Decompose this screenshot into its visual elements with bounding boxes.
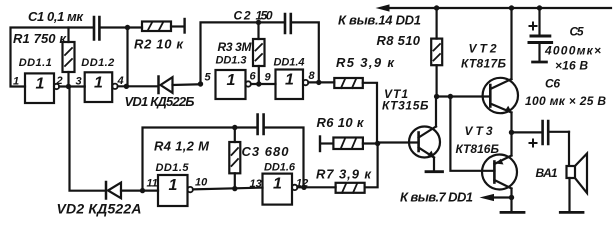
- diode VD2: [106, 182, 121, 199]
- transistor VT1: [409, 97, 440, 171]
- svg-text:DD1.3: DD1.3: [216, 55, 247, 67]
- transistor VT3: [482, 132, 517, 211]
- svg-text:BA1: BA1: [536, 166, 558, 180]
- wire К выв.7 DD1: [480, 194, 512, 201]
- junction R4 top: [232, 125, 237, 130]
- svg-text:DD1.6: DD1.6: [264, 162, 296, 174]
- junction C5 top: [537, 5, 542, 10]
- wire VD2 to pin11 node: [121, 190, 158, 192]
- svg-text:13: 13: [250, 178, 262, 190]
- wire VT1 collector to VT2 base: [437, 95, 490, 97]
- resistor R8: [431, 8, 442, 97]
- junction pin12 node: [301, 185, 306, 190]
- junction pin5 node: [198, 81, 203, 86]
- svg-text:VD1 КД522Б: VD1 КД522Б: [125, 94, 195, 109]
- capacitor C3: [258, 115, 264, 135]
- svg-text:1: 1: [169, 177, 178, 194]
- svg-text:С3 680: С3 680: [242, 144, 290, 159]
- svg-text:1: 1: [36, 75, 45, 92]
- gate DD1.6: [263, 174, 298, 205]
- terminal bar before R6: [319, 137, 321, 152]
- svg-text:К выв.7 DD1: К выв.7 DD1: [400, 190, 473, 205]
- ground bar speaker: [560, 211, 583, 214]
- svg-text:С5: С5: [570, 25, 584, 39]
- svg-text:VT3: VT3: [465, 124, 493, 138]
- svg-text:11: 11: [147, 178, 158, 190]
- svg-text:9: 9: [265, 72, 272, 84]
- svg-text:R4 1,2 М: R4 1,2 М: [154, 139, 210, 154]
- transistor VT2: [483, 8, 518, 132]
- resistor R2: [142, 22, 184, 32]
- capacitor C6: [512, 121, 570, 147]
- power rail К выв.14 DD1: [376, 4, 612, 11]
- wire down-left to VD2: [70, 87, 105, 191]
- junction R3 bottom: [256, 81, 261, 86]
- svg-text:R6 10 к: R6 10 к: [317, 115, 365, 130]
- ground bar VT3 collector: [501, 211, 524, 214]
- svg-text:1: 1: [227, 72, 236, 89]
- wire pin12 to R7: [297, 186, 335, 188]
- junction top of osc1: [125, 25, 130, 30]
- svg-text:1: 1: [273, 176, 282, 193]
- junction R1 bottom: [66, 84, 71, 89]
- wire pins 2-3: [59, 85, 84, 87]
- junction R8 bottom: [434, 94, 439, 99]
- svg-text:VT2: VT2: [469, 42, 497, 56]
- junction pin11 node: [140, 188, 145, 193]
- wire VT3 base branch: [450, 97, 494, 171]
- junction pin4 node: [124, 84, 129, 89]
- svg-text:1: 1: [13, 76, 19, 88]
- wire osc2 loop right: [292, 22, 319, 82]
- resistor R1: [63, 28, 75, 87]
- svg-text:КТ817Б: КТ817Б: [461, 57, 507, 71]
- junction VT3 base branch: [448, 94, 453, 99]
- gate DD1.5: [158, 175, 193, 206]
- capacitor C2: [285, 14, 291, 33]
- svg-text:4: 4: [117, 75, 124, 87]
- terminal bar after R2: [183, 19, 185, 33]
- svg-text:КТ816Б: КТ816Б: [456, 142, 500, 156]
- svg-text:10: 10: [195, 177, 208, 189]
- svg-text:К выв.14 DD1: К выв.14 DD1: [338, 13, 421, 28]
- wire pin1 frame of DD1.1: [11, 28, 93, 87]
- resistor R6: [321, 138, 378, 150]
- resistor R7: [336, 144, 378, 193]
- svg-text:150: 150: [256, 9, 273, 23]
- wire base node to VT1: [378, 141, 419, 143]
- junction R8 top: [434, 5, 439, 10]
- svg-text:100 мк × 25 В: 100 мк × 25 В: [525, 94, 606, 108]
- gate DD1.2: [85, 72, 118, 102]
- svg-text:С1 0,1 мк: С1 0,1 мк: [28, 9, 84, 24]
- svg-text:1: 1: [285, 72, 294, 89]
- junction VT2 collector rail: [509, 5, 514, 10]
- svg-text:R3 3М: R3 3М: [218, 40, 253, 54]
- svg-text:DD1.4: DD1.4: [274, 57, 305, 69]
- junction output node: [509, 130, 514, 135]
- wire osc3 loop left+top: [143, 128, 257, 191]
- gate DD1.1: [25, 73, 59, 103]
- svg-text:1: 1: [94, 74, 103, 91]
- gate DD1.4: [276, 70, 309, 100]
- wire osc3 loop right: [265, 128, 304, 188]
- gate DD1.3: [216, 70, 251, 99]
- resistor R4: [229, 128, 240, 190]
- wire pin10 to pin13: [193, 188, 263, 190]
- svg-text:6: 6: [250, 71, 257, 83]
- svg-text:DD1.2: DD1.2: [81, 57, 114, 69]
- junction pin8 node: [316, 80, 321, 85]
- junction R3 top: [256, 20, 261, 25]
- speaker BA1: [567, 154, 588, 194]
- wire C6 to speaker: [568, 132, 570, 166]
- svg-text:R2 10 к: R2 10 к: [134, 37, 184, 52]
- svg-text:8: 8: [309, 70, 316, 82]
- svg-text:R8 510: R8 510: [377, 33, 421, 48]
- wire VD1 to pin5 node: [173, 83, 201, 86]
- diode VD1: [159, 77, 173, 94]
- wire pin4 to VD1: [118, 85, 157, 87]
- junction К выв.7 on VT3 collector: [509, 195, 514, 200]
- junction R4 bottom: [232, 186, 237, 191]
- svg-text:R7 3,9 к: R7 3,9 к: [316, 167, 372, 182]
- wire junction down to pin4 node: [126, 28, 128, 87]
- svg-text:×16 В: ×16 В: [555, 59, 588, 73]
- svg-text:R5 3,9 к: R5 3,9 к: [336, 55, 395, 70]
- ground bar VT1 emitter: [426, 170, 443, 173]
- resistor R3: [253, 22, 265, 84]
- capacitor C5: [529, 8, 552, 62]
- wire C1 to R2: [101, 26, 143, 28]
- svg-text:R1 750 к: R1 750 к: [13, 31, 67, 46]
- svg-text:КТ315Б: КТ315Б: [382, 99, 429, 113]
- svg-text:4000мк×: 4000мк×: [544, 44, 601, 58]
- svg-text:2: 2: [56, 75, 63, 87]
- wire osc2 loop left+top: [201, 22, 284, 84]
- wire pin6 to pin9: [251, 83, 276, 85]
- svg-text:VD2 КД522А: VD2 КД522А: [57, 201, 142, 217]
- wire speaker to ground: [568, 178, 570, 211]
- svg-text:С2: С2: [234, 9, 251, 23]
- wire pin8 to R5: [308, 81, 334, 83]
- svg-text:С6: С6: [545, 77, 560, 91]
- capacitor C1: [94, 17, 99, 40]
- svg-text:5: 5: [205, 72, 212, 84]
- svg-text:DD1.5: DD1.5: [156, 162, 190, 174]
- svg-text:DD1.1: DD1.1: [19, 57, 52, 69]
- junction VT1 base node: [375, 141, 380, 146]
- resistor R5: [334, 78, 377, 143]
